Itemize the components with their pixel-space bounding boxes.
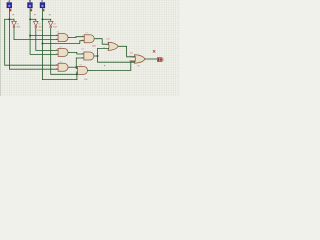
svg-text:C: C — [41, 0, 43, 3]
svg-text:A: A — [8, 0, 10, 3]
svg-text:U11: U11 — [130, 53, 133, 55]
svg-text:U2: U2 — [39, 24, 41, 26]
svg-text:B: B — [29, 0, 31, 3]
svg-text:U9: U9 — [79, 65, 81, 67]
svg-text:U10: U10 — [106, 38, 109, 40]
svg-text:U4: U4 — [57, 32, 59, 34]
svg-text:U6: U6 — [60, 61, 62, 63]
svg-text:U5: U5 — [60, 47, 62, 49]
svg-text:U1: U1 — [17, 24, 19, 26]
svg-text:U3: U3 — [53, 24, 55, 26]
svg-text:U7: U7 — [86, 33, 88, 35]
svg-text:U8: U8 — [82, 49, 84, 51]
